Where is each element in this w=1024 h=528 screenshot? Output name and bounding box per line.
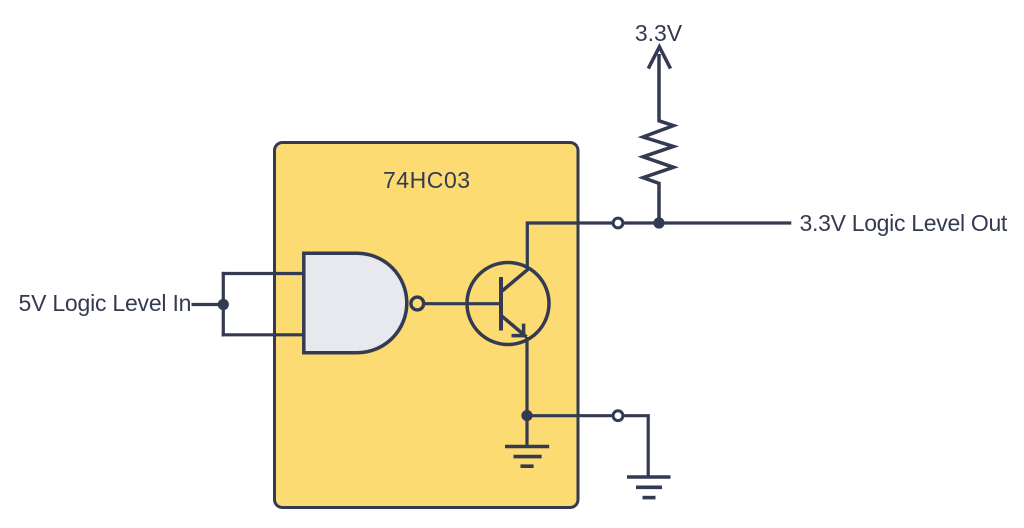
wire NAND input A <box>222 272 306 275</box>
svg-text:3.3V: 3.3V <box>635 20 683 46</box>
node emitter junction <box>521 410 532 421</box>
wire NAND input B <box>222 333 306 336</box>
NAND gate U1A <box>304 253 407 353</box>
node input junction <box>218 299 229 310</box>
3.3V arrowhead <box>648 47 670 69</box>
wire collector up <box>526 223 529 270</box>
wire bubble to base <box>425 302 502 305</box>
ground GND2 <box>627 477 671 498</box>
transistor Q1 body <box>467 263 549 345</box>
terminal output open circle <box>613 218 623 228</box>
node output junction <box>653 217 664 228</box>
wire emitter down <box>525 337 528 416</box>
wire input vertical <box>222 272 225 337</box>
emitter arrowhead <box>512 324 524 336</box>
svg-text:74HC03: 74HC03 <box>383 167 471 193</box>
wire output horizontal <box>526 221 792 224</box>
transistor collector diagonal <box>502 269 529 292</box>
transistor base bar <box>499 277 503 331</box>
ground GND1 <box>505 416 549 467</box>
NAND output bubble <box>411 297 424 310</box>
IC body U1 <box>275 143 579 508</box>
svg-text:5V Logic Level In: 5V Logic Level In <box>19 290 192 316</box>
transistor emitter diagonal <box>502 316 527 337</box>
terminal bottom open circle <box>613 411 623 421</box>
svg-text:3.3V Logic Level Out: 3.3V Logic Level Out <box>800 210 1008 236</box>
resistor R1 <box>643 54 674 223</box>
wire input lead <box>192 303 220 306</box>
wire bottom horizontal <box>527 414 650 417</box>
wire terminal to ground <box>647 416 650 477</box>
